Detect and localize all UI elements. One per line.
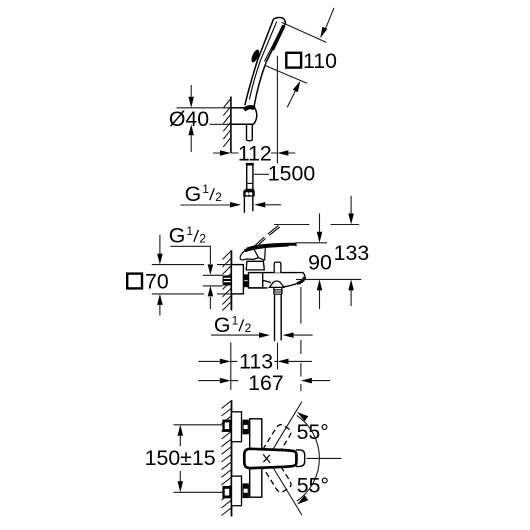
wall hatching (middle) — [222, 251, 231, 311]
diverter knob — [274, 262, 281, 273]
label G 1/2 (hose) — [185, 182, 223, 206]
svg-text:112: 112 — [238, 141, 272, 165]
shower hose upper segment — [246, 164, 254, 190]
spout tip extension line — [300, 287, 302, 391]
hose centre extension line — [277, 343, 279, 370]
G1/2 hose arrows — [180, 204, 230, 206]
wall (bottom view) — [231, 400, 233, 516]
lever tip edge — [295, 243, 297, 246]
spout — [263, 273, 305, 277]
dashed lever position (down 55) — [263, 459, 293, 494]
label 1500 leader — [254, 173, 269, 175]
G1/2 wall leader and arrows — [170, 246, 210, 263]
handle dome (faceted) — [240, 250, 264, 260]
holder tail tube — [247, 124, 253, 140]
threaded nipple in wall — [223, 275, 232, 285]
square symbol for 70 — [127, 274, 142, 289]
swing arc (upper) — [297, 415, 320, 458]
svg-text:167: 167 — [248, 371, 284, 395]
escutcheon (top view, upper) — [232, 412, 242, 442]
lever (top view) — [244, 449, 296, 468]
spray mode button — [250, 49, 261, 64]
dimension 112 line and arrows — [213, 56, 295, 164]
union nut (lower) — [242, 483, 249, 498]
G1/2 thread extent lines — [203, 275, 223, 286]
hose connector nut — [243, 189, 254, 197]
lever handle (front): thick underside — [245, 245, 289, 251]
shower hose below mixer — [275, 294, 282, 341]
112 arrowheads — [220, 150, 231, 156]
lever tip cap (top view) — [296, 450, 305, 467]
escutcheon (top view, lower) — [232, 476, 242, 506]
svg-text:2: 2 — [199, 231, 206, 245]
dimension dia40 extension lines — [177, 108, 231, 125]
holder socket crescent — [244, 107, 255, 110]
dashed lever position (up 55) — [263, 423, 293, 458]
union nut (upper) — [242, 420, 249, 435]
dimension 113/167 left extension line — [230, 342, 232, 390]
shower holder — [231, 107, 257, 124]
dimension sq70 extension lines — [152, 265, 232, 294]
label G 1/2 (hose outlet) — [214, 313, 252, 337]
dimension 90: reference lines — [296, 243, 362, 280]
dia40 arrows — [190, 85, 192, 97]
S-union wall nut (top) — [222, 420, 231, 432]
G1/2 outlet leader and arrows — [211, 334, 259, 336]
133 arrows — [350, 196, 352, 214]
svg-text:110: 110 — [303, 49, 337, 73]
spout underside near body — [263, 280, 271, 282]
swing arc (lower) — [297, 458, 320, 501]
55deg rays — [273, 402, 342, 515]
dimension 167 arrows — [198, 380, 220, 382]
wall (middle) — [230, 250, 232, 310]
cartridge collar — [246, 261, 264, 270]
wall (top view) — [230, 97, 232, 154]
square symbol for 110 — [286, 53, 301, 68]
svg-text:150±15: 150±15 — [145, 446, 216, 470]
head inner bevel lines — [249, 22, 282, 100]
outlet ferrule — [274, 287, 282, 294]
svg-text:90: 90 — [308, 250, 332, 274]
S-union wall nut (bottom) — [222, 486, 231, 498]
svg-text:G: G — [169, 223, 186, 247]
150 arrows (inside) — [178, 425, 184, 436]
dimension 133: reference line — [274, 224, 359, 226]
svg-text:1: 1 — [186, 224, 193, 238]
svg-text:G: G — [214, 313, 231, 337]
dimension 113 arrows — [198, 360, 220, 362]
label G 1/2 (wall connection) — [169, 223, 207, 247]
spray face dark strip — [272, 26, 284, 50]
lever handle (front): thin top edge — [247, 243, 296, 248]
svg-text:133: 133 — [334, 241, 370, 265]
svg-text:Ø40: Ø40 — [169, 107, 209, 131]
svg-text:2: 2 — [215, 190, 222, 204]
lever raised-position marks (dashed double lines) — [253, 226, 279, 249]
wall hatching (bottom) — [222, 401, 232, 516]
svg-text:1: 1 — [232, 313, 239, 327]
mixer body bar — [250, 419, 262, 497]
centre x mark — [263, 454, 270, 463]
wall escutcheon (front) — [231, 265, 243, 294]
svg-text:2: 2 — [245, 321, 252, 335]
shower outlet boss — [269, 281, 284, 287]
dimension 150+-15 extension lines — [174, 425, 224, 493]
wall hatching (top) — [223, 99, 231, 147]
svg-text:113: 113 — [239, 350, 273, 374]
sq70 dimension arrows — [159, 235, 161, 254]
svg-text:G: G — [185, 182, 202, 206]
svg-text:55°: 55° — [297, 473, 329, 497]
dome facet creases — [253, 247, 266, 261]
svg-text:70: 70 — [145, 269, 169, 293]
union hex nut — [243, 274, 248, 287]
hose lower segment — [244, 197, 252, 213]
mixer body — [249, 273, 263, 288]
svg-text:1: 1 — [202, 182, 209, 196]
dimension sq110: arrows — [287, 8, 334, 108]
dimension sq110: extension lines — [265, 22, 327, 83]
hand shower head and handle — [245, 17, 286, 106]
90 arrows — [319, 213, 321, 231]
svg-text:1500: 1500 — [268, 162, 316, 186]
svg-text:55°: 55° — [297, 420, 329, 444]
